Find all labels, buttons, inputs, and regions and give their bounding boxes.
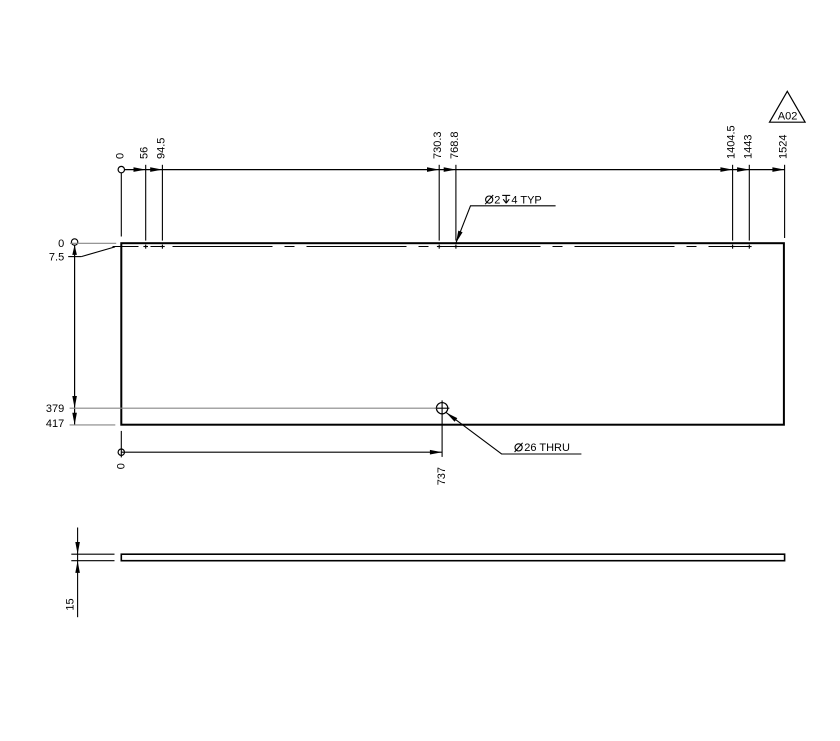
small hole c/l cross at 730.3 — [438, 245, 440, 249]
hole D26 THRU — [436, 403, 447, 414]
small hole c/l cross at 768.8 — [455, 245, 457, 249]
left dim arrow down (379) — [72, 396, 77, 408]
small hole c/l cross at 1443 — [748, 245, 750, 249]
extension line + arrow for top dim 768.8 — [455, 165, 457, 241]
svg-text:0: 0 — [58, 238, 64, 250]
leader line for D26 callout — [446, 413, 581, 454]
top ordinate origin extension down to plate corner — [120, 173, 122, 237]
extension line + arrow for top dim 1443 — [748, 165, 750, 241]
leader arrow for D2 callout — [456, 231, 463, 243]
svg-text:0: 0 — [115, 463, 127, 469]
bottom ordinate dimension line — [121, 451, 442, 453]
top ordinate dimension line — [121, 169, 784, 171]
svg-text:2: 2 — [494, 194, 500, 206]
svg-text:94.5: 94.5 — [155, 138, 167, 159]
extension line + arrow for top dim 94.5 — [161, 165, 163, 241]
small hole c/l cross at 56 — [145, 245, 147, 249]
extension line + arrow for top dim 1524 — [784, 165, 786, 238]
leader arrow for D26 callout — [446, 413, 457, 422]
svg-text:26 THRU: 26 THRU — [524, 442, 570, 454]
bottom dim arrow (737) — [430, 450, 442, 455]
bottom ordinate origin circle — [118, 449, 124, 455]
svg-text:15: 15 — [64, 598, 76, 610]
svg-text:4 TYP: 4 TYP — [511, 194, 541, 206]
left ordinate dimension line — [74, 245, 76, 425]
side view extension lines — [71, 553, 114, 555]
extension line + arrow for top dim 56 — [145, 165, 147, 241]
hole D26 vertical centerline / extension to bottom dim — [441, 400, 443, 457]
left ordinate origin circle — [71, 239, 77, 245]
left dim 417 extension (gray) — [70, 424, 116, 426]
svg-text:1443: 1443 — [742, 135, 754, 159]
svg-text:A02: A02 — [778, 110, 798, 122]
left dim 0 extension (gray) — [70, 242, 116, 244]
svg-text:56: 56 — [139, 147, 151, 159]
svg-text:417: 417 — [46, 418, 64, 430]
plate top view outline 1524x417 — [121, 243, 784, 425]
top ordinate origin circle — [118, 166, 124, 172]
small hole c/l cross at 1404.5 — [732, 245, 734, 249]
svg-text:1404.5: 1404.5 — [726, 125, 738, 159]
extension line + arrow for top dim 1404.5 — [732, 165, 734, 241]
left dim 7.5 jog leader to centerline — [81, 247, 115, 257]
left dim arrow down (417) — [72, 413, 77, 425]
svg-text:730.3: 730.3 — [432, 131, 444, 159]
D2 callout depth symbol — [502, 195, 510, 203]
svg-text:737: 737 — [436, 467, 448, 485]
D2 callout diameter symbol — [486, 196, 493, 203]
svg-text:0: 0 — [114, 153, 126, 159]
svg-text:1524: 1524 — [778, 135, 790, 159]
svg-text:768.8: 768.8 — [449, 131, 461, 159]
side view plate 1524x15 — [121, 554, 784, 561]
left dim 7.5 tick — [68, 256, 81, 258]
svg-text:7.5: 7.5 — [49, 251, 64, 263]
hole row centerline (dash-dot) — [113, 246, 752, 248]
extension line + arrow for top dim 730.3 — [438, 165, 440, 241]
hole D26 horizontal centerline tick — [435, 407, 450, 409]
side view dimension line 15 — [77, 528, 79, 618]
left dim 379 extension (gray) to hole — [70, 407, 437, 409]
svg-text:379: 379 — [46, 403, 64, 415]
D26 callout diameter symbol — [515, 444, 522, 451]
small hole c/l cross at 94.5 — [161, 245, 163, 249]
left dim arrow up (7.5) — [72, 245, 77, 255]
bottom ordinate origin extension from plate corner — [120, 431, 122, 458]
revision triangle A02 — [770, 91, 806, 122]
leader line for D2 callout — [456, 206, 556, 243]
